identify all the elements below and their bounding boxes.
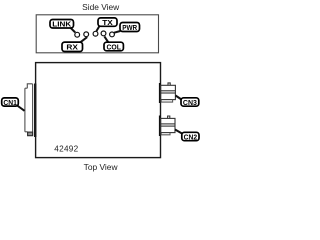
pointer line PWR to LED5 [114, 31, 120, 33]
svg-text:TX: TX [102, 18, 113, 27]
svg-text:42492: 42492 [54, 145, 78, 154]
connector CN3 (right edge, upper) [161, 83, 176, 102]
label bubble LINK [50, 20, 74, 29]
LED indicator 4 (COL) [101, 31, 106, 36]
label bubble CN1 [2, 98, 19, 107]
board edge reinforcement behind CN3 and CN2 [159, 83, 161, 103]
pointer line CN3 to connector [176, 96, 182, 100]
svg-text:CN3: CN3 [183, 98, 197, 107]
connector CN2 (right edge, lower) [161, 116, 175, 135]
LED indicator 1 (LINK) [75, 32, 80, 37]
svg-text:RX: RX [66, 43, 78, 52]
board edge reinforcement behind CN1 [34, 84, 36, 138]
svg-text:COL: COL [106, 42, 121, 51]
pointer line LINK to LED1 [71, 28, 76, 33]
svg-text:Side View: Side View [82, 2, 120, 12]
svg-text:LINK: LINK [52, 20, 72, 29]
LED indicator 3 (TX) [93, 31, 98, 36]
pointer line TX to LED3 [96, 26, 99, 31]
board outline (top view) [36, 63, 161, 158]
enclosure outline (side view) [36, 15, 158, 53]
svg-text:CN1: CN1 [3, 98, 17, 107]
label bubble TX [98, 18, 117, 27]
pointer line CN2 to connector [175, 130, 182, 134]
label bubble RX [62, 42, 83, 52]
pointer line RX to LED2 [80, 37, 87, 43]
label bubble PWR [120, 23, 140, 32]
connector CN1 (left edge) [25, 84, 33, 136]
label bubble CN2 [182, 132, 199, 141]
LED indicator 5 (PWR) [110, 32, 115, 37]
svg-text:CN2: CN2 [184, 132, 198, 141]
svg-text:Top View: Top View [84, 162, 119, 172]
label bubble COL [104, 42, 123, 51]
label bubble CN3 [181, 98, 199, 107]
svg-text:PWR: PWR [122, 23, 138, 32]
pointer line COL to LED4 [104, 36, 108, 42]
LED indicator 2 (RX) [84, 32, 89, 37]
pointer line CN1 to connector [17, 105, 25, 111]
connector CN1 bottom mounting tab [28, 132, 33, 136]
